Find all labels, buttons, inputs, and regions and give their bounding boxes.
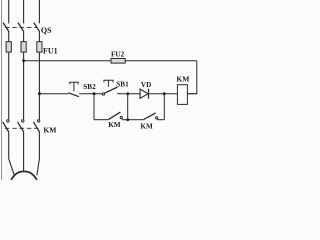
fuse FU1 pole2 <box>21 42 26 52</box>
KM aux contact b blade <box>143 113 155 120</box>
wire VD to coil KM <box>149 93 178 95</box>
junction dot L2 top wire <box>22 59 25 62</box>
KM main contact pole1 fixed circle <box>7 120 9 122</box>
QS linkage dashed <box>5 26 37 28</box>
phase line L1 bottom wire <box>8 132 10 159</box>
diode VD triangle <box>140 89 148 98</box>
junction dot node B bottom <box>126 118 129 121</box>
pushbutton SB1 actuator <box>104 80 113 86</box>
diode VD cathode bar <box>148 89 150 99</box>
KM aux contact b fixed circle <box>156 117 158 119</box>
fuse FU2 <box>111 59 125 64</box>
svg-text:FU2: FU2 <box>111 51 125 59</box>
KM main contact pole2 blade <box>18 122 24 132</box>
KM aux contact a fixed circle <box>120 116 122 118</box>
phase line L1 lower wire <box>8 52 10 119</box>
switch QS pole3 blade <box>34 23 40 32</box>
wire L1 diagonal to motor <box>9 159 14 175</box>
phase line L2 top wire <box>23 0 25 23</box>
svg-text:KM: KM <box>140 122 153 130</box>
svg-text:FU1: FU1 <box>43 47 58 56</box>
riser wire node B <box>127 94 129 120</box>
riser wire node A down <box>93 94 95 120</box>
phase line L3 middle wire <box>38 31 40 42</box>
right rail wire <box>187 61 196 94</box>
phase line L3 bottom wire <box>38 132 40 159</box>
motor M circle <box>10 171 37 198</box>
KM linkage dashed <box>5 127 39 129</box>
bottom branch wire a right <box>122 119 128 121</box>
phase line L2 bottom wire <box>23 132 25 172</box>
KM aux contact a blade <box>108 112 120 120</box>
phase line L2 lower wire <box>23 52 25 119</box>
pushbutton SB1 fixed circle <box>102 93 104 95</box>
phase line L3 top wire <box>38 0 40 23</box>
main control wire from L3 to SB2 <box>39 93 68 95</box>
bottom branch wire b <box>128 119 143 121</box>
pushbutton SB1 blade <box>104 87 117 93</box>
switch QS pole2 blade <box>18 23 24 32</box>
wire SB2 to node A <box>79 93 102 95</box>
top control wire with FU2 <box>24 60 197 62</box>
svg-text:KM: KM <box>43 125 56 134</box>
svg-text:SB2: SB2 <box>83 83 96 91</box>
bottom branch wire b right <box>157 119 164 121</box>
KM main contact pole1 blade <box>3 122 9 132</box>
switch QS pole1 blade <box>3 23 9 32</box>
KM main contact pole2 fixed circle <box>22 120 24 122</box>
phase line L1 middle wire <box>8 31 10 42</box>
svg-text:QS: QS <box>41 26 52 35</box>
junction dot node C <box>163 92 166 95</box>
junction dot node A <box>93 92 96 95</box>
junction dot L3 main wire <box>38 92 41 95</box>
junction dot node B top <box>126 92 129 95</box>
pushbutton SB2 blade <box>68 93 79 97</box>
wire coil to right rail <box>187 93 196 95</box>
phase line L2 middle wire <box>23 31 25 42</box>
riser wire node C up <box>163 94 165 120</box>
fuse FU1 pole3 <box>37 42 42 52</box>
svg-text:VD: VD <box>141 81 151 89</box>
svg-text:KM: KM <box>176 75 189 84</box>
fuse FU1 pole1 <box>6 42 11 52</box>
left page border <box>1 0 3 180</box>
wire L3 diagonal to motor <box>37 159 40 176</box>
phase line L1 top wire <box>8 0 10 23</box>
KM main contact pole3 fixed circle <box>37 120 39 122</box>
KM main contact pole3 blade <box>33 122 39 132</box>
wire SB1 to diode VD <box>117 93 140 95</box>
svg-text:SB1: SB1 <box>116 81 129 89</box>
bottom branch wire a <box>94 119 108 121</box>
pushbutton SB2 actuator <box>70 82 78 91</box>
phase line L3 lower wire <box>38 52 40 119</box>
contactor coil KM <box>177 85 187 105</box>
svg-text:KM: KM <box>108 121 121 129</box>
